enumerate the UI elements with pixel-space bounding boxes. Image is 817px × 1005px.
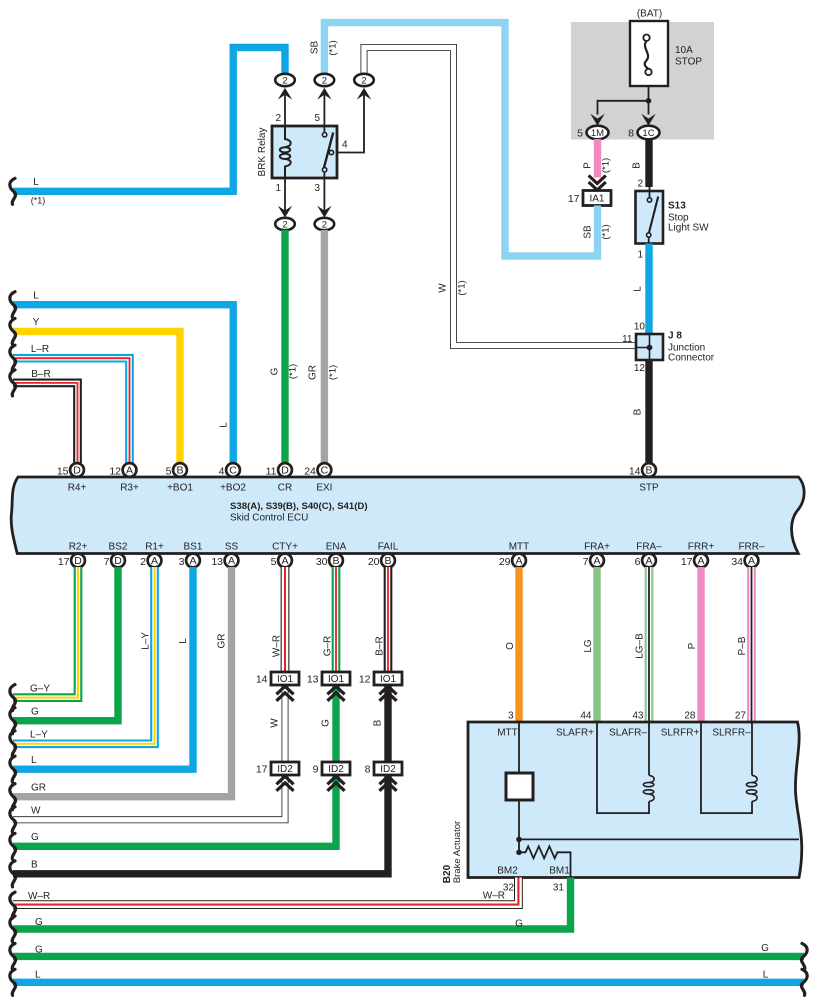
wire W — [13, 774, 285, 820]
svg-text:A: A — [697, 555, 704, 567]
svg-text:BRK Relay: BRK Relay — [257, 128, 268, 177]
connector ID2 pin 8 — [374, 762, 402, 775]
svg-text:ENA: ENA — [326, 542, 347, 553]
junction dot — [516, 850, 522, 856]
svg-text:(*1): (*1) — [601, 224, 612, 239]
svg-text:EXI: EXI — [316, 483, 332, 494]
svg-text:1: 1 — [637, 250, 643, 261]
svg-text:ID2: ID2 — [328, 764, 344, 775]
svg-text:A: A — [126, 465, 133, 477]
svg-text:(*1): (*1) — [328, 40, 339, 55]
svg-text:2: 2 — [322, 219, 327, 230]
connector 2 above relay pin 2 — [275, 74, 295, 86]
wire W-R — [13, 878, 518, 905]
svg-text:A: A — [748, 555, 755, 567]
svg-text:9: 9 — [313, 764, 319, 776]
svg-text:W–R: W–R — [483, 891, 505, 902]
svg-text:A: A — [189, 555, 196, 567]
resistor — [519, 846, 571, 877]
wire L — [13, 979, 804, 986]
actuator B20 Brake Actuator — [468, 722, 802, 878]
wire W — [282, 684, 289, 762]
continuation mark — [10, 318, 16, 344]
svg-text:L: L — [33, 291, 39, 302]
wire B — [13, 774, 388, 874]
svg-text:S38(A), S39(B), S40(C), S41(D): S38(A), S39(B), S40(C), S41(D) — [230, 501, 368, 512]
wire B-R — [384, 567, 393, 672]
wire branch to 1M — [598, 101, 649, 115]
svg-text:L–Y: L–Y — [141, 632, 152, 650]
svg-text:A: A — [515, 555, 522, 567]
svg-text:(BAT): (BAT) — [637, 9, 662, 20]
svg-text:G–Y: G–Y — [30, 684, 50, 695]
svg-text:29: 29 — [499, 556, 511, 568]
svg-text:17: 17 — [256, 764, 268, 776]
wire O — [515, 567, 522, 722]
svg-text:D: D — [114, 555, 122, 567]
battery supply block — [571, 22, 714, 140]
svg-text:A: A — [645, 555, 652, 567]
wire G — [332, 684, 339, 762]
svg-text:4: 4 — [219, 466, 225, 478]
solenoid SLAFR — [597, 722, 649, 813]
svg-text:D: D — [74, 555, 82, 567]
connector 2 above relay pin 4 — [354, 74, 374, 86]
svg-text:BM1: BM1 — [549, 866, 570, 877]
svg-text:STOP: STOP — [675, 57, 702, 68]
svg-text:O: O — [505, 642, 516, 650]
svg-text:SLRFR+: SLRFR+ — [661, 728, 700, 739]
svg-text:34: 34 — [731, 556, 743, 568]
continuation mark — [10, 731, 16, 757]
svg-text:STP: STP — [639, 483, 659, 494]
wire L — [13, 48, 285, 192]
ECU pin 3(A) BS1 — [186, 554, 200, 568]
continuation mark — [801, 943, 807, 969]
svg-text:SS: SS — [225, 542, 239, 553]
svg-text:17: 17 — [58, 556, 70, 568]
svg-text:5: 5 — [271, 556, 277, 568]
svg-text:C: C — [321, 465, 329, 477]
svg-text:W–R: W–R — [271, 635, 282, 657]
connector 2 above relay pin 5 — [315, 74, 335, 86]
wire L-R — [13, 358, 130, 463]
svg-text:G: G — [35, 917, 43, 928]
svg-text:20: 20 — [368, 556, 380, 568]
wire G — [13, 774, 336, 846]
svg-text:A: A — [281, 555, 288, 567]
svg-text:BS2: BS2 — [109, 542, 128, 553]
ECU pin 4(C) +BO2 — [226, 463, 240, 477]
svg-text:L: L — [633, 286, 644, 292]
connector IO1 pin 14 — [271, 672, 299, 685]
svg-text:J 8: J 8 — [668, 331, 682, 342]
svg-text:A: A — [593, 555, 600, 567]
wire B — [645, 139, 652, 187]
svg-text:B: B — [632, 162, 643, 169]
svg-text:FAIL: FAIL — [378, 542, 399, 553]
ECU pin 30(B) ENA — [329, 554, 343, 568]
svg-text:Brake Actuator: Brake Actuator — [452, 821, 463, 883]
svg-text:30: 30 — [316, 556, 328, 568]
relay pin 1 lead — [284, 178, 286, 211]
svg-text:GR: GR — [217, 634, 228, 649]
svg-text:SB: SB — [310, 41, 321, 55]
svg-text:Skid Control ECU: Skid Control ECU — [230, 513, 308, 524]
svg-text:3: 3 — [508, 711, 514, 722]
svg-text:(*1): (*1) — [328, 365, 339, 380]
ECU S38(A) S39(B) S40(C) S41(D) Skid Control ECU — [11, 477, 804, 554]
svg-text:43: 43 — [632, 711, 644, 722]
wire L-Y — [13, 567, 155, 744]
connector ID2 pin 9 — [322, 762, 350, 775]
svg-text:Light SW: Light SW — [668, 223, 709, 234]
svg-text:L–R: L–R — [31, 344, 49, 355]
connector IA1 pin 17 — [583, 191, 611, 206]
svg-text:R3+: R3+ — [120, 483, 139, 494]
svg-text:IO1: IO1 — [277, 674, 294, 685]
svg-text:12: 12 — [634, 363, 646, 374]
svg-text:R1+: R1+ — [145, 542, 164, 553]
svg-text:L: L — [219, 422, 230, 428]
svg-text:G: G — [761, 943, 769, 954]
continuation mark — [10, 370, 16, 396]
svg-text:8: 8 — [628, 128, 634, 140]
svg-text:C: C — [229, 465, 237, 477]
continuation mark — [10, 861, 16, 887]
svg-text:CR: CR — [278, 483, 292, 494]
svg-text:G: G — [31, 707, 39, 718]
ECU pin 29(A) MTT — [512, 554, 526, 568]
wire L — [13, 305, 233, 463]
ECU pin 13(A) SS — [225, 554, 239, 568]
connector IO1 pin 13 — [322, 672, 350, 685]
fuse 10A STOP — [630, 21, 702, 86]
ECU pin 5(A) CTY+ — [278, 554, 292, 568]
svg-text:SLAFR–: SLAFR– — [609, 728, 647, 739]
wire P-B — [747, 567, 756, 722]
wire SB — [324, 23, 597, 256]
svg-text:13: 13 — [307, 674, 319, 686]
svg-text:B–R: B–R — [374, 636, 385, 655]
wire branch to 1C — [648, 101, 650, 115]
svg-text:G–R: G–R — [322, 636, 333, 657]
svg-text:ID2: ID2 — [380, 764, 396, 775]
connector 2 below relay pin 1 — [278, 206, 292, 218]
svg-text:28: 28 — [684, 711, 696, 722]
svg-text:B: B — [645, 465, 652, 477]
ECU pin 11(D) CR — [278, 463, 292, 477]
ECU pin 15(D) R4+ — [70, 463, 84, 477]
svg-text:11: 11 — [266, 466, 277, 478]
wire GR — [321, 230, 328, 463]
svg-text:G: G — [270, 367, 281, 375]
svg-text:FRR–: FRR– — [738, 542, 765, 553]
svg-text:B: B — [384, 555, 391, 567]
connector 1M pin 5 — [590, 114, 604, 126]
svg-text:(*1): (*1) — [601, 158, 612, 173]
svg-text:Connector: Connector — [668, 353, 715, 364]
junction dot — [646, 98, 652, 104]
wire Y — [13, 331, 180, 463]
svg-text:11: 11 — [622, 334, 633, 345]
svg-text:17: 17 — [681, 556, 693, 568]
wire B — [645, 360, 652, 463]
continuation mark — [10, 916, 16, 942]
svg-text:2: 2 — [361, 75, 366, 86]
svg-text:W: W — [270, 718, 281, 728]
junction connector J8 — [636, 334, 663, 360]
svg-text:5: 5 — [577, 128, 583, 140]
svg-text:8: 8 — [365, 764, 371, 776]
svg-text:5: 5 — [314, 113, 320, 124]
wire B-R — [13, 383, 78, 463]
svg-text:12: 12 — [359, 674, 371, 686]
svg-text:1M: 1M — [591, 128, 604, 139]
svg-text:6: 6 — [635, 556, 641, 568]
svg-text:A: A — [228, 555, 235, 567]
svg-text:GR: GR — [31, 783, 46, 794]
svg-text:14: 14 — [256, 674, 268, 686]
svg-text:L: L — [33, 177, 39, 188]
svg-text:44: 44 — [580, 711, 592, 722]
svg-text:G: G — [515, 919, 523, 930]
solenoid SLRFR — [701, 722, 752, 813]
wire G — [13, 567, 118, 721]
svg-text:MTT: MTT — [509, 542, 530, 553]
wire LG — [593, 567, 600, 722]
ECU pin 5(B) +BO1 — [173, 463, 187, 477]
relay BRK Relay — [272, 126, 337, 178]
svg-text:B: B — [373, 719, 384, 726]
ECU pin 12(A) R3+ — [123, 463, 137, 477]
svg-text:(*1): (*1) — [457, 280, 468, 295]
svg-text:B: B — [31, 860, 38, 871]
svg-text:MTT: MTT — [497, 728, 518, 739]
relay coil — [280, 126, 291, 178]
wire G-Y — [13, 567, 78, 698]
svg-text:2: 2 — [322, 75, 327, 86]
svg-text:W: W — [31, 806, 41, 817]
ECU pin 24(C) EXI — [318, 463, 332, 477]
svg-text:FRA–: FRA– — [636, 542, 662, 553]
ECU pin 20(B) FAIL — [381, 554, 395, 568]
continuation mark — [10, 892, 16, 918]
wire GR — [13, 567, 232, 797]
relay switch — [322, 126, 333, 178]
svg-text:10A: 10A — [675, 45, 693, 56]
motor square — [506, 773, 533, 800]
wire LG-B — [645, 567, 654, 722]
svg-text:24: 24 — [304, 466, 316, 478]
connector IO1 pin 12 — [374, 672, 402, 685]
svg-text:5: 5 — [166, 466, 172, 478]
continuation mark — [801, 969, 807, 995]
svg-text:4: 4 — [342, 140, 348, 151]
svg-text:ID2: ID2 — [277, 764, 293, 775]
svg-text:GR: GR — [308, 365, 319, 380]
svg-text:B: B — [633, 408, 644, 415]
ECU pin 34(A) FRR– — [745, 554, 759, 568]
continuation mark — [10, 807, 16, 833]
svg-text:B: B — [332, 555, 339, 567]
ECU pin 14(B) STP — [642, 463, 656, 477]
wire G — [13, 953, 804, 960]
continuation mark — [10, 756, 16, 782]
svg-text:(*1): (*1) — [288, 364, 299, 379]
svg-text:+BO1: +BO1 — [167, 483, 193, 494]
svg-text:13: 13 — [211, 556, 223, 568]
wire G — [281, 230, 288, 463]
svg-text:10: 10 — [634, 322, 646, 333]
svg-text:L: L — [31, 755, 37, 766]
wire L — [13, 567, 193, 769]
svg-text:L: L — [178, 638, 189, 644]
continuation mark — [10, 708, 16, 734]
svg-text:2: 2 — [140, 556, 146, 568]
svg-text:SLAFR+: SLAFR+ — [556, 728, 594, 739]
svg-text:P–B: P–B — [737, 636, 748, 655]
connector 1C pin 8 — [641, 114, 655, 126]
svg-text:R2+: R2+ — [69, 542, 88, 553]
continuation mark — [10, 345, 16, 371]
svg-text:15: 15 — [57, 466, 69, 478]
svg-text:G: G — [31, 832, 39, 843]
svg-text:B: B — [176, 465, 183, 477]
svg-text:W: W — [438, 283, 449, 293]
wire L — [645, 244, 652, 335]
internal bus wire — [519, 838, 799, 840]
svg-text:IO1: IO1 — [328, 674, 345, 685]
relay pin 3 lead — [323, 178, 325, 211]
svg-text:BM2: BM2 — [497, 866, 518, 877]
svg-text:3: 3 — [179, 556, 185, 568]
wire W — [364, 48, 636, 346]
continuation mark — [10, 969, 16, 995]
svg-text:Y: Y — [33, 317, 40, 328]
junction dot — [516, 837, 522, 843]
ECU pin 2(A) R1+ — [148, 554, 162, 568]
svg-text:27: 27 — [735, 711, 747, 722]
svg-text:W–R: W–R — [28, 891, 50, 902]
continuation mark — [10, 685, 16, 711]
svg-text:+BO2: +BO2 — [220, 483, 246, 494]
relay pin 4 lead — [334, 95, 364, 153]
svg-text:IO1: IO1 — [380, 674, 397, 685]
svg-text:BS1: BS1 — [184, 542, 203, 553]
continuation mark — [10, 178, 16, 204]
wire P — [697, 567, 704, 722]
svg-text:1: 1 — [275, 183, 281, 194]
continuation mark — [10, 292, 16, 318]
svg-text:LG: LG — [583, 639, 594, 653]
wire G — [13, 878, 571, 930]
svg-text:2: 2 — [282, 219, 287, 230]
svg-text:3: 3 — [314, 183, 320, 194]
svg-text:FRA+: FRA+ — [584, 542, 610, 553]
switch S13 Stop Light SW — [636, 191, 664, 244]
svg-text:L: L — [763, 970, 769, 981]
svg-text:1C: 1C — [642, 128, 654, 139]
continuation mark — [10, 833, 16, 859]
svg-text:S13: S13 — [668, 201, 686, 212]
wire B — [384, 684, 391, 762]
svg-text:SLRFR–: SLRFR– — [712, 728, 751, 739]
svg-text:2: 2 — [282, 75, 287, 86]
svg-text:2: 2 — [637, 179, 643, 190]
ECU pin 7(D) BS2 — [111, 554, 125, 568]
chevrons into IA1 — [589, 176, 606, 191]
svg-text:R4+: R4+ — [68, 483, 87, 494]
svg-text:CTY+: CTY+ — [272, 542, 298, 553]
svg-text:A: A — [151, 555, 158, 567]
svg-text:L–Y: L–Y — [30, 730, 48, 741]
svg-text:2: 2 — [275, 113, 281, 124]
svg-text:D: D — [73, 465, 81, 477]
svg-text:IA1: IA1 — [589, 194, 604, 205]
svg-text:7: 7 — [104, 556, 110, 568]
svg-text:G: G — [321, 719, 332, 727]
wire P — [594, 139, 601, 178]
svg-text:FRR+: FRR+ — [688, 542, 715, 553]
continuation mark — [10, 943, 16, 969]
svg-text:P: P — [687, 642, 698, 649]
svg-text:31: 31 — [553, 883, 565, 894]
svg-text:12: 12 — [109, 466, 121, 478]
ECU pin 6(A) FRA– — [642, 554, 656, 568]
svg-text:L: L — [35, 970, 41, 981]
svg-text:B–R: B–R — [31, 369, 50, 380]
relay pin 5 lead — [323, 95, 325, 126]
connector 2 below relay pin 3 — [317, 206, 331, 218]
svg-text:D: D — [281, 465, 289, 477]
wire W-R — [281, 567, 290, 672]
actuator MTT branch — [518, 722, 520, 773]
svg-text:14: 14 — [629, 466, 641, 478]
svg-text:7: 7 — [583, 556, 589, 568]
wire G-R — [332, 567, 341, 672]
svg-text:P: P — [583, 162, 594, 169]
ECU pin 7(A) FRA+ — [590, 554, 604, 568]
wire fuse to junction — [648, 86, 650, 101]
svg-text:LG–B: LG–B — [635, 633, 646, 659]
continuation mark — [10, 784, 16, 810]
svg-text:(*1): (*1) — [31, 196, 46, 206]
connector ID2 pin 17 — [271, 762, 299, 775]
svg-text:SB: SB — [583, 225, 594, 239]
ECU pin 17(A) FRR+ — [694, 554, 708, 568]
relay pin 2 lead — [284, 95, 286, 126]
ECU pin 17(D) R2+ — [71, 554, 85, 568]
svg-text:G: G — [35, 945, 43, 956]
svg-text:17: 17 — [568, 193, 580, 205]
